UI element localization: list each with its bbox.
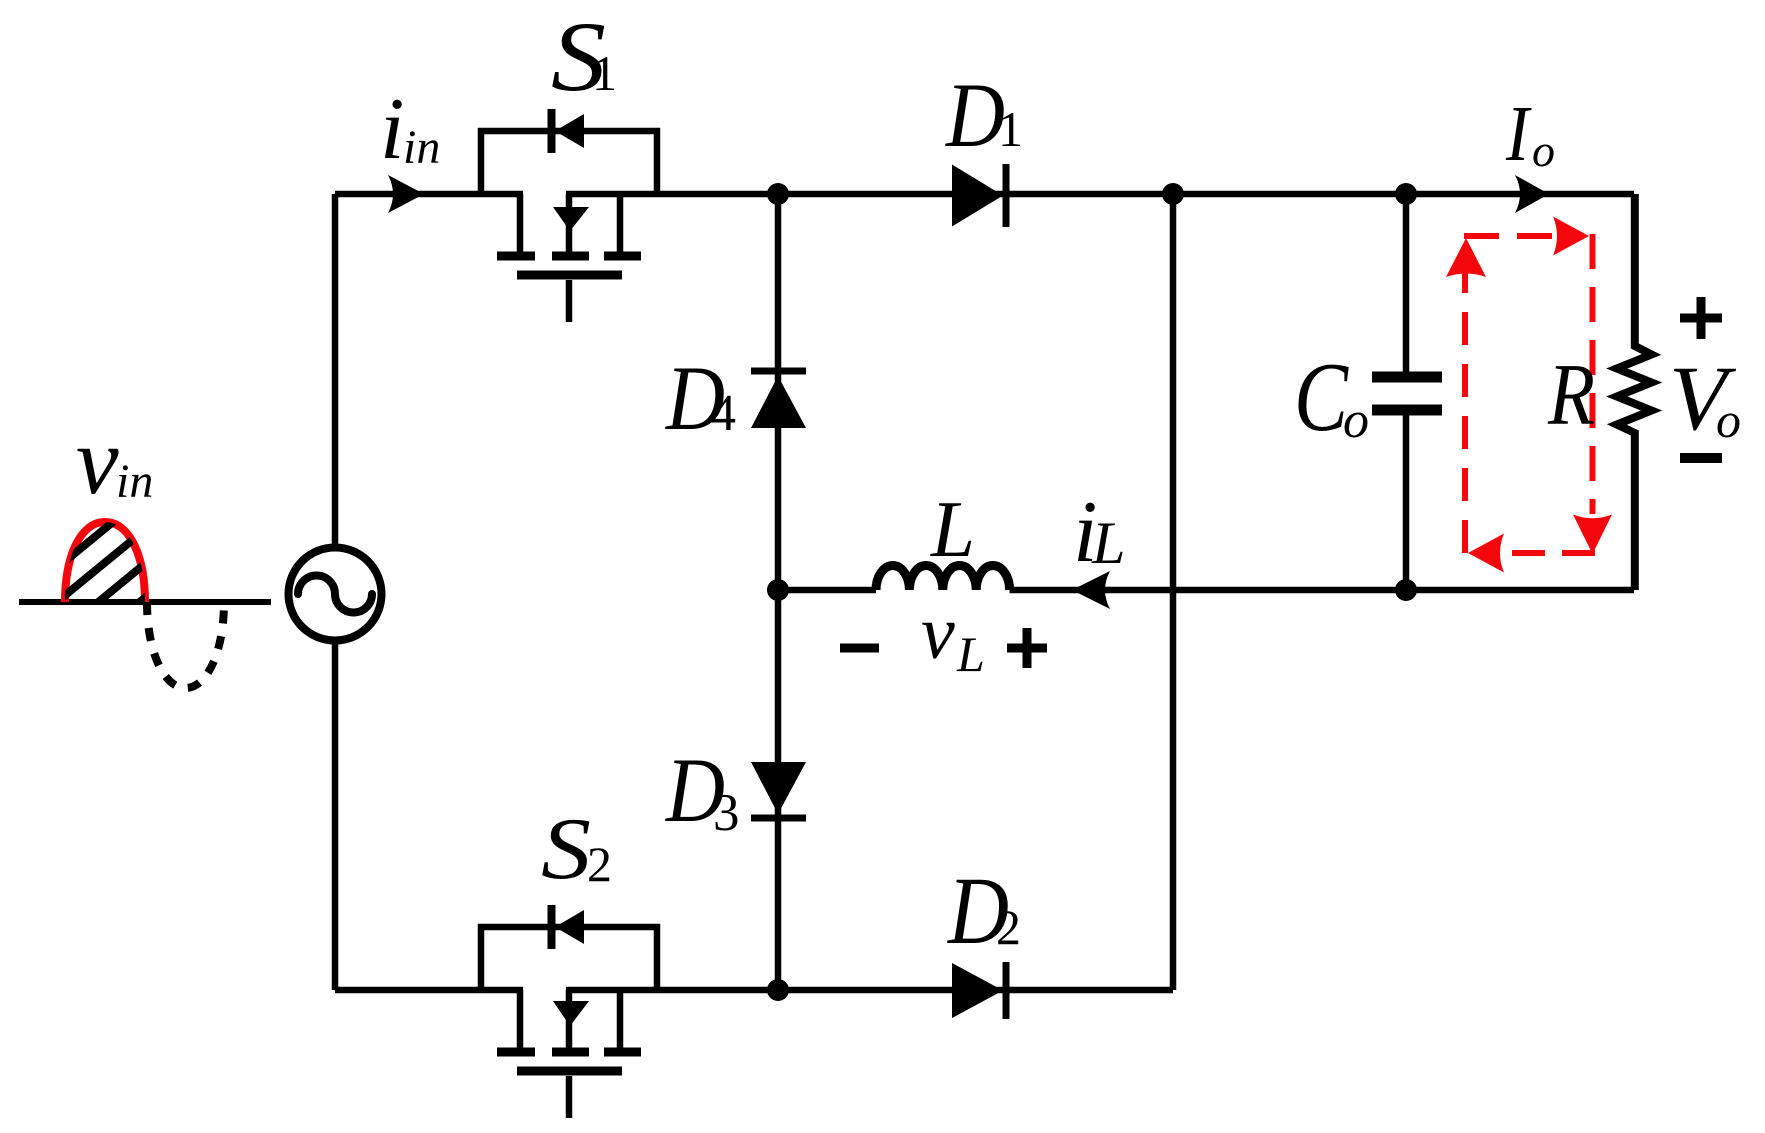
svg-text:in: in bbox=[116, 455, 153, 508]
label minus output bbox=[1680, 453, 1722, 463]
MOSFET S1 body arrow bbox=[553, 207, 589, 231]
node top rail / right vertical bbox=[1162, 183, 1184, 205]
svg-text:in: in bbox=[403, 121, 440, 174]
wire capacitor Co top stub bbox=[1403, 194, 1410, 372]
red loop left dashed side bbox=[1462, 250, 1468, 553]
label plus output bbox=[1680, 297, 1722, 339]
red loop top dashed side bbox=[1464, 233, 1552, 239]
svg-text:2: 2 bbox=[587, 836, 612, 892]
svg-text:S: S bbox=[541, 801, 591, 898]
vin sketch axis bbox=[19, 599, 271, 605]
red loop bottom dashed side bbox=[1507, 550, 1595, 556]
MOSFET S1 gate lead bbox=[566, 280, 573, 322]
wire bottom rail left (source to S2) bbox=[335, 987, 523, 994]
MOSFET S2 drain lead bbox=[517, 990, 524, 1049]
red loop right arrow bbox=[1553, 217, 1589, 256]
diode D1 cathode bar bbox=[1003, 164, 1010, 227]
MOSFET S1 body-diode triangle bbox=[555, 114, 584, 148]
resistor R bbox=[1617, 194, 1652, 590]
diode D2 cathode bar bbox=[1003, 962, 1010, 1019]
diode D3 triangle bbox=[751, 762, 806, 814]
MOSFET S2 gate lead bbox=[566, 1076, 573, 1118]
capacitor Co plates bbox=[1372, 377, 1442, 410]
wire top rail left (source to S1) bbox=[335, 191, 523, 198]
svg-text:L: L bbox=[1091, 510, 1125, 576]
MOSFET S1 body lead bbox=[566, 194, 573, 253]
svg-text:1: 1 bbox=[998, 101, 1023, 157]
red loop down arrow bbox=[1573, 515, 1612, 555]
red loop up arrow bbox=[1446, 238, 1486, 277]
label plus vL bbox=[1007, 628, 1047, 668]
svg-text:L: L bbox=[930, 486, 975, 574]
diode D1 triangle bbox=[952, 165, 1003, 227]
wire capacitor Co bottom stub bbox=[1403, 415, 1410, 590]
svg-text:o: o bbox=[1716, 392, 1741, 448]
MOSFET S2 body-diode branch wire bbox=[481, 927, 657, 990]
wire top rail right (S1 to output corner) bbox=[566, 191, 1634, 198]
arrow i_L bbox=[1072, 571, 1110, 609]
MOSFET S1 channel bars bbox=[497, 252, 641, 261]
MOSFET S1 gate plate bbox=[517, 271, 622, 280]
svg-text:I: I bbox=[1505, 91, 1532, 178]
MOSFET S1 source lead bbox=[617, 194, 624, 253]
red loop left arrow bbox=[1468, 534, 1504, 573]
MOSFET S2 body lead bbox=[566, 990, 573, 1049]
diode D2 triangle bbox=[952, 963, 1003, 1018]
svg-text:v: v bbox=[921, 591, 955, 675]
wire left vertical source bottom bbox=[332, 642, 339, 990]
wire left vertical source top bbox=[332, 194, 339, 546]
MOSFET S2 source lead bbox=[617, 990, 624, 1049]
svg-text:1: 1 bbox=[592, 45, 617, 101]
MOSFET S2 gate plate bbox=[517, 1067, 622, 1076]
node top rail / Co top bbox=[1395, 183, 1417, 205]
vin sketch red half-sine bbox=[65, 522, 145, 602]
node Co bottom bbox=[1395, 579, 1417, 601]
arrow i_in bbox=[388, 175, 424, 213]
svg-text:o: o bbox=[1343, 392, 1369, 449]
inductor L bbox=[876, 566, 1010, 591]
AC source sine symbol bbox=[298, 576, 372, 613]
wire bottom rail right (S2 to node) bbox=[566, 987, 1173, 994]
wire inductor rail left bbox=[778, 587, 876, 594]
AC source circle bbox=[289, 548, 382, 641]
node bottom rail bbox=[767, 979, 789, 1001]
svg-text:v: v bbox=[76, 407, 119, 514]
wire middle vertical (D4/D3 branch) bbox=[775, 194, 782, 990]
diode D3 cathode bar bbox=[751, 815, 806, 822]
wire inductor rail right bbox=[1010, 587, 1634, 594]
svg-text:i: i bbox=[380, 81, 404, 178]
svg-text:D: D bbox=[944, 64, 1005, 166]
svg-text:C: C bbox=[1294, 343, 1349, 452]
MOSFET S2 body arrow bbox=[553, 1001, 589, 1026]
MOSFET S1 drain lead bbox=[517, 194, 524, 253]
MOSFET S2 body-diode cathode bar bbox=[548, 905, 556, 949]
svg-text:L: L bbox=[956, 626, 985, 682]
svg-text:4: 4 bbox=[710, 385, 736, 442]
vin sketch dashed negative half bbox=[147, 602, 224, 688]
MOSFET S2 body-diode triangle bbox=[555, 910, 584, 944]
svg-text:2: 2 bbox=[996, 899, 1021, 955]
svg-text:R: R bbox=[1547, 347, 1595, 444]
MOSFET S1 body-diode branch wire bbox=[481, 131, 657, 194]
label minus vL bbox=[840, 644, 879, 653]
diode D4 cathode bar bbox=[751, 368, 806, 375]
svg-text:3: 3 bbox=[713, 784, 740, 842]
MOSFET S2 channel bars bbox=[497, 1048, 641, 1057]
MOSFET S1 body-diode cathode bar bbox=[548, 109, 556, 153]
arrow I_o bbox=[1515, 175, 1549, 213]
svg-text:o: o bbox=[1532, 125, 1555, 176]
vin sketch hatch lines bbox=[30, 433, 180, 692]
red loop right dashed side bbox=[1590, 234, 1596, 514]
node top rail / D4 branch bbox=[767, 183, 789, 205]
diode D4 triangle bbox=[751, 376, 806, 428]
node inductor left bbox=[767, 579, 789, 601]
wire right-middle vertical bbox=[1170, 194, 1177, 990]
